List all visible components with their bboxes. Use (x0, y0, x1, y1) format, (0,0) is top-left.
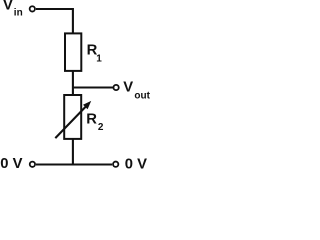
svg-text:in: in (14, 7, 23, 18)
svg-text:1: 1 (96, 53, 102, 64)
svg-text:out: out (134, 91, 150, 102)
svg-text:V: V (123, 79, 133, 95)
svg-text:V: V (3, 0, 13, 13)
svg-text:0 V: 0 V (125, 156, 147, 171)
svg-text:R: R (86, 111, 97, 127)
svg-text:0 V: 0 V (0, 156, 22, 171)
svg-text:2: 2 (98, 122, 104, 133)
